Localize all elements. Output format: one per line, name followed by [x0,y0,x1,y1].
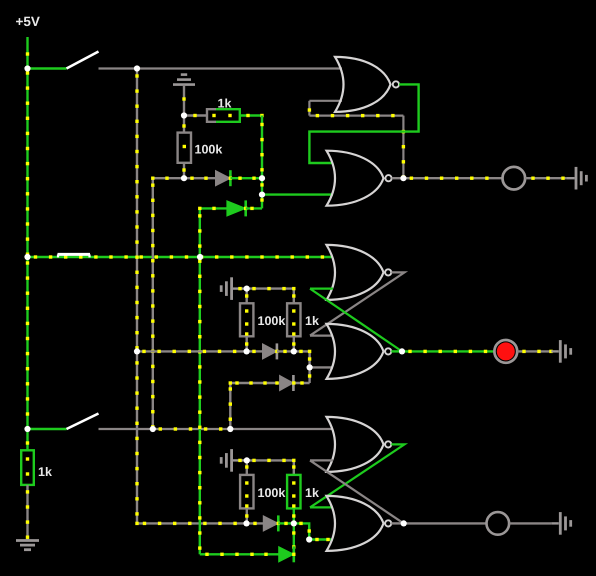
wire D5 anode lead [247,522,264,525]
wire U3B output lead [391,522,403,524]
wire rail segment to row2 [26,69,29,258]
diode D1 [216,170,233,186]
node D5 anode junction [243,520,249,526]
wire latch3 green diagonal U3A-to-U3B [310,444,405,507]
ground output2 [551,340,570,363]
node rail-switch3 junction [24,426,30,432]
label R1 1k [218,97,232,111]
wire U2B output lead [391,350,402,352]
wire latch1 feedback QA-to-U1B [309,84,418,163]
wire latch2 green diagonal U2B-to-U2A [310,289,402,352]
wire bus x137 vertical [135,69,138,524]
wire bus x200 vertical S line [198,208,201,554]
svg-text:100k: 100k [258,486,286,500]
wire R7 bottom lead [26,485,29,540]
wire R5 bottom lead [245,508,248,523]
wire latch2 output to LED2 [402,350,495,353]
nor gate U1B [327,151,392,206]
ground latch2 left [221,277,245,300]
wire gate U1B lower input [262,193,333,195]
wire row1 to gate U1A input [99,67,343,69]
wire R4 bottom lead [292,336,295,351]
nor gate U1A [335,57,399,112]
LED1 (off) [503,167,526,190]
wire LED2 to ground [517,350,553,353]
wire D2 anode row [198,207,227,210]
svg-text:+5V: +5V [16,14,40,29]
wire D5 cathode lead [278,522,294,525]
resistor R6 1k [287,475,300,509]
wire R3 top lead [245,289,248,304]
switch S3 blade (open) [67,414,99,430]
label R5 100k [258,486,286,500]
wire D1 cathode lead [230,177,262,180]
wire latch3 green set row [200,553,279,556]
wire latch2 reset row [137,350,247,353]
node D1 cathode junction [259,175,265,181]
wire latch3 output to LED3 [404,522,487,524]
node latch1 R junction [181,112,187,118]
wire row2 switch S2 line [28,255,334,258]
node latch3 gate feed junction [291,520,297,526]
node latch3 output [401,520,407,526]
ground latch3 left [221,449,245,472]
wire R7 top lead [26,429,29,450]
wire ground1 stem [182,85,185,116]
label R4 1k [305,314,319,328]
resistor R7 1k [21,450,34,485]
wire +5V rail top segment [26,37,29,69]
wire latch2 gray diagonal U2A-to-U2B [310,272,405,335]
node D3 anode junction [244,348,250,354]
svg-text:1k: 1k [305,486,319,500]
node row3 junction R1line [150,426,156,432]
wire bus x230 vertical [229,383,232,429]
nor gate U3B [327,496,392,551]
wire D2 cathode lead [246,207,262,210]
ground latch1 top (inverted) [173,75,195,85]
ground output3 [551,512,570,535]
node row3 junction D4line [227,426,233,432]
LED2 (on, red) [494,340,517,363]
wire LED1 to ground [525,177,567,180]
resistor R5 100k [240,475,253,509]
wire R1 right lead [240,114,264,117]
ground bottom-left [16,541,39,550]
diode D5 [263,515,280,531]
wire latch1 feedback QB-to-U1A [309,114,405,179]
svg-text:1k: 1k [305,314,319,328]
wire R5 top lead [245,460,248,475]
node +5V label [16,14,40,29]
node row2 junction S line [197,254,203,260]
wire latch2 to U2B input [294,350,333,368]
wire latch2 top row [247,287,296,303]
node rail-switch1 junction [24,65,30,71]
diode D6 [279,546,296,562]
wire LED3 to ground [510,522,552,524]
svg-text:1k: 1k [38,465,52,479]
node bus x137 latch2 tap [134,348,140,354]
node rail-switch2 junction [24,254,30,260]
wire rail segment to row3 [26,257,29,429]
diode D2 [227,200,248,216]
wire U1B output lead [392,177,404,179]
node latch1 output [400,175,406,181]
resistor R1 1k [207,109,240,122]
wire U1A lower input stub [308,101,342,116]
nor gate U2B [327,324,392,379]
resistor R4 1k [287,303,300,336]
label R3 100k [258,314,286,328]
LED3 (off) [487,512,510,535]
wire R2 top lead [182,116,185,133]
node latch1 gate input junction [259,192,265,198]
node latch3 ground junction [238,457,250,463]
wire switch S3 left lead [28,428,67,430]
wire bus x137 bottom horizontal to D5 [135,522,246,525]
node U2B input junction [307,364,313,370]
wire latch1 output to LED1 [403,177,502,180]
wire R6 bottom lead [292,508,295,523]
wire switch S1 left lead [28,67,67,69]
wire latch3 x294 down [292,523,295,554]
nor gate U2A [327,245,392,300]
label R7 1k [38,465,52,479]
wire bus x152 vertical [151,178,154,429]
label R2 100k [195,143,223,157]
wire R2 bottom lead [182,163,185,178]
wire row3 to gate U3A input [99,427,334,430]
switch S1 blade (open) [67,52,99,69]
diode D3 [263,343,279,359]
svg-text:1k: 1k [218,97,232,111]
wire latch1 x262 vertical [260,116,263,209]
node latch2 ground junction [238,286,249,292]
node U3B input junction [306,536,312,542]
svg-text:100k: 100k [258,314,286,328]
node latch1 reset junction [181,175,187,181]
nor gate U3A [327,417,392,472]
wire latch3 gray diagonal U3B-to-U3A [310,460,404,523]
wire latch1 reset row left [151,177,184,180]
wire D1 anode lead [184,177,216,180]
wire D4 cathode to U2B [292,367,311,384]
wire latch3 to U3B input [294,522,333,542]
wire R1 left lead [184,114,207,117]
resistor R3 100k [240,303,253,336]
wire D3 cathode lead [277,350,294,353]
ground output1 [567,167,586,190]
wire latch3 top row [247,459,296,475]
label R6 1k [305,486,319,500]
wire R3 bottom lead [245,336,248,351]
switch S2 blade (closed) [58,254,91,257]
wire D3 anode lead [247,350,263,353]
svg-text:100k: 100k [195,143,223,157]
node latch2 output [399,348,405,354]
resistor R2 100k [178,133,191,163]
diode D4 [280,375,294,391]
wire latch2 second reset row [229,381,280,384]
node latch2 gate feed junction [291,348,297,354]
node row1 junction [134,65,140,71]
